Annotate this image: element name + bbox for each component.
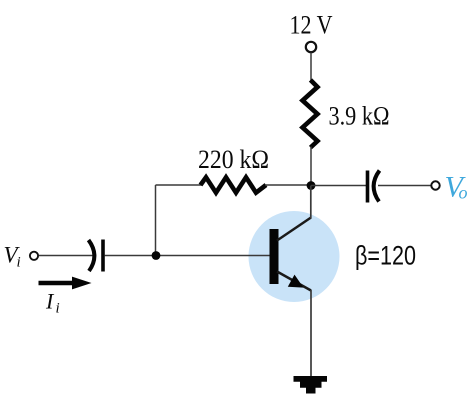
- transistor Q1 emitter arrowhead: [288, 275, 304, 288]
- wire Vi to C1: [39, 255, 93, 257]
- wire emitter to ground: [310, 290, 312, 377]
- svg-text:β=120: β=120: [355, 241, 416, 271]
- capacitor C1 curved plate: [89, 240, 95, 271]
- ground: [294, 376, 328, 394]
- capacitor C1 straight plate: [101, 240, 105, 272]
- wire collector vertical: [310, 186, 312, 219]
- resistor RF 220k: [201, 177, 267, 192]
- transistor Q1 base bar: [270, 229, 279, 284]
- wire RC to collector node: [310, 147, 312, 184]
- svg-text:i: i: [17, 255, 21, 271]
- transistor Q1 collector lead: [277, 218, 311, 241]
- node collector junction: [307, 181, 316, 190]
- transistor Q1 emitter lead: [277, 272, 311, 291]
- capacitor C2 curved plate: [374, 171, 380, 202]
- terminal Vo: [431, 181, 439, 189]
- transistor Q1 highlight circle: [249, 211, 340, 302]
- terminal VCC: [306, 42, 316, 52]
- wire C2 to Vo terminal: [378, 185, 431, 187]
- svg-text:i: i: [56, 301, 60, 317]
- node base junction: [152, 251, 161, 260]
- wire feedback vertical: [155, 185, 157, 256]
- wire C1 to base node and base: [105, 255, 271, 257]
- svg-text:220 kΩ: 220 kΩ: [198, 145, 269, 174]
- arrow Ii: [39, 281, 79, 285]
- svg-text:I: I: [45, 289, 55, 314]
- svg-text:12 V: 12 V: [290, 11, 333, 40]
- wire collector node to C2: [311, 185, 366, 187]
- capacitor C2 straight plate: [366, 171, 370, 203]
- svg-text:o: o: [459, 183, 468, 203]
- svg-text:3.9 kΩ: 3.9 kΩ: [329, 102, 390, 131]
- wire feedback left segment: [156, 184, 203, 186]
- wire RF to collector node: [265, 184, 311, 186]
- resistor RC 3.9k: [303, 80, 318, 148]
- terminal Vi: [30, 252, 38, 260]
- wire VCC to RC: [310, 53, 312, 81]
